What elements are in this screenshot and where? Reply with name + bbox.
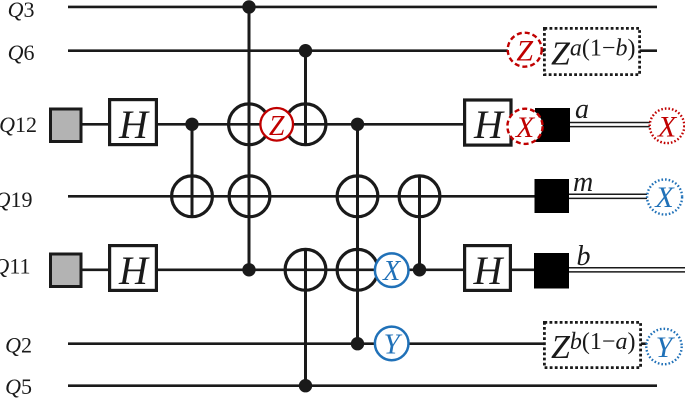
svg-text:Q6: Q6 xyxy=(8,40,35,65)
svg-text:Q19: Q19 xyxy=(0,187,33,212)
svg-text:Z: Z xyxy=(269,111,285,142)
svg-text:m: m xyxy=(573,167,593,198)
svg-text:Q3: Q3 xyxy=(8,0,35,22)
svg-text:b: b xyxy=(577,241,591,272)
svg-text:H: H xyxy=(473,102,505,147)
svg-text:H: H xyxy=(118,102,150,147)
svg-text:a: a xyxy=(575,94,589,125)
svg-text:Q11: Q11 xyxy=(0,254,31,279)
svg-text:Z: Z xyxy=(516,35,533,68)
svg-text:Q2: Q2 xyxy=(5,333,32,358)
svg-text:Y: Y xyxy=(384,329,403,361)
svg-text:H: H xyxy=(118,248,150,293)
svg-text:X: X xyxy=(654,181,675,214)
svg-text:Q5: Q5 xyxy=(5,374,32,399)
svg-text:X: X xyxy=(382,256,401,287)
svg-text:H: H xyxy=(473,248,505,293)
svg-text:X: X xyxy=(515,111,536,144)
svg-text:Q12: Q12 xyxy=(0,112,37,137)
svg-text:X: X xyxy=(657,111,678,144)
